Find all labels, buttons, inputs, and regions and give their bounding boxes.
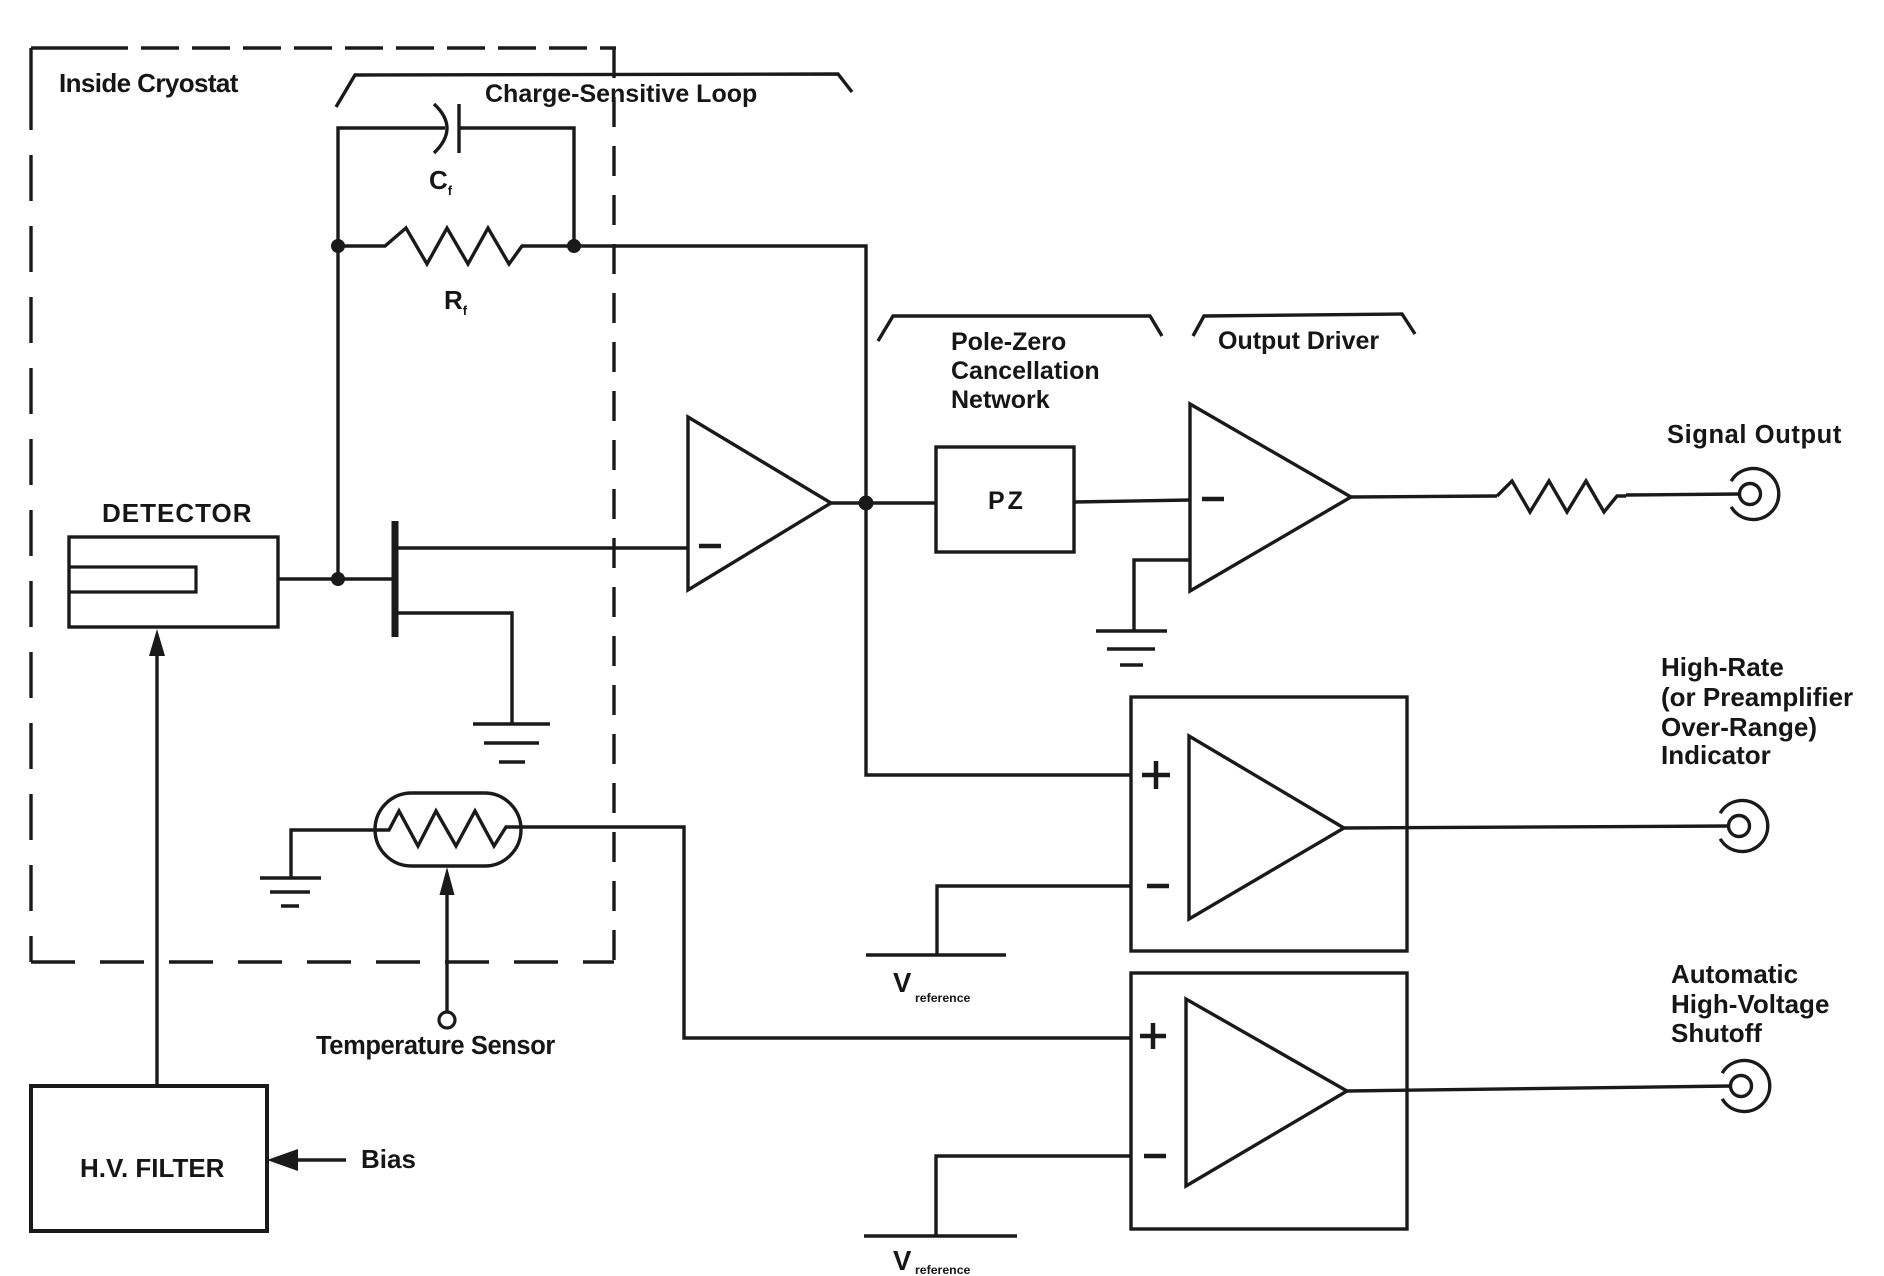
ground below Q1 source: [473, 724, 550, 762]
svg-text:reference: reference: [915, 1263, 971, 1276]
svg-text:Network: Network: [951, 386, 1050, 414]
comparator U4 high-voltage shutoff box: [1131, 973, 1407, 1229]
svg-text:Bias: Bias: [361, 1144, 416, 1174]
arrowhead into thermistor: [440, 867, 455, 895]
svg-text:Automatic: Automatic: [1671, 959, 1798, 989]
op-amp U2 output driver: [1190, 404, 1351, 591]
wire temperature sense terminal: [445, 888, 448, 1012]
resistor output series: [1497, 481, 1626, 512]
U1 inverting input minus: [699, 544, 721, 549]
wire U4 minus to Vreference: [936, 1156, 1131, 1235]
terminal circle temperature sensor: [439, 1012, 455, 1028]
arrowhead into detector: [149, 629, 165, 656]
detector inner electrode: [69, 567, 196, 592]
ground below U2: [1096, 631, 1167, 665]
wire U3 minus to Vreference: [937, 886, 1131, 954]
wire thermistor right lead to U4 plus input: [521, 827, 1131, 1038]
U3 plus input: [1142, 761, 1170, 789]
op-amp U4 triangle: [1186, 999, 1347, 1186]
brace Pole-Zero: [878, 316, 1162, 341]
wire bias input: [296, 1158, 346, 1161]
svg-text:Cancellation: Cancellation: [951, 357, 1100, 385]
thermistor RT1 element: [378, 811, 521, 846]
ground at thermistor: [260, 878, 321, 906]
svg-text:Output Driver: Output Driver: [1218, 327, 1379, 355]
cryostat dashed enclosure: [31, 48, 616, 962]
brace Charge-Sensitive Loop: [336, 74, 852, 107]
brace Output Driver: [1193, 314, 1415, 336]
wire U2 output to series resistor: [1351, 496, 1497, 497]
node junction right of Rf: [567, 239, 581, 253]
svg-text:PZ: PZ: [988, 487, 1026, 515]
U3 minus input: [1147, 884, 1169, 889]
op-amp U3 triangle: [1189, 736, 1344, 919]
wire PZ to output driver: [1074, 500, 1190, 502]
svg-text:High-Rate: High-Rate: [1661, 652, 1784, 682]
svg-text:Indicator: Indicator: [1661, 740, 1771, 770]
comparator U3 high-rate indicator box: [1131, 697, 1407, 951]
svg-text:Charge-Sensitive Loop: Charge-Sensitive Loop: [485, 80, 757, 108]
thermistor RT1 temperature sensor body: [375, 793, 521, 866]
connector J1 signal output: [1740, 484, 1761, 505]
PZ network box: [936, 447, 1074, 552]
op-amp U1 charge-sensitive amplifier: [688, 417, 831, 590]
resistor Rf: [338, 228, 575, 264]
svg-text:DETECTOR: DETECTOR: [102, 498, 253, 528]
wire thermistor left lead: [291, 830, 378, 878]
svg-text:V: V: [893, 1245, 912, 1276]
connector J3 shutoff: [1731, 1076, 1752, 1097]
node gate junction: [331, 572, 345, 586]
transistor Q1 input FET gate bar: [392, 521, 399, 637]
wire Q1 drain to amplifier input: [398, 546, 688, 549]
svg-text:(or Preamplifier: (or Preamplifier: [1661, 682, 1853, 712]
wire capacitor to right vertical: [459, 128, 574, 246]
wire U4 output to connector: [1347, 1086, 1731, 1091]
H.V. filter box: [31, 1086, 267, 1231]
wire Q1 source to ground: [398, 613, 512, 724]
svg-text:Signal Output: Signal Output: [1667, 421, 1842, 449]
wire feedback-loop left vertical: [338, 128, 445, 579]
wire resistor to output connector: [1626, 494, 1740, 495]
svg-text:Over-Range): Over-Range): [1661, 712, 1817, 742]
node U1 output junction: [859, 496, 874, 511]
svg-text:High-Voltage: High-Voltage: [1671, 989, 1829, 1019]
svg-text:reference: reference: [915, 991, 971, 1005]
svg-text:Inside Cryostat: Inside Cryostat: [59, 68, 239, 98]
wire H.V. filter to detector bias: [155, 652, 158, 1086]
capacitor Cf: [434, 104, 447, 153]
svg-text:Pole-Zero: Pole-Zero: [951, 328, 1066, 356]
svg-text:Shutoff: Shutoff: [1671, 1018, 1762, 1048]
connector J2 high-rate: [1729, 816, 1750, 837]
svg-text:V: V: [893, 967, 912, 998]
U4 minus input: [1144, 1154, 1166, 1159]
wire detector to gate node: [278, 577, 392, 580]
wire feedback top run to vertical drop: [575, 246, 1131, 775]
wire U3 output to connector: [1344, 826, 1729, 828]
arrowhead bias into H.V. filter: [267, 1149, 298, 1171]
node junction left of Rf: [331, 239, 345, 253]
wire U2 lower input to ground: [1134, 560, 1190, 631]
U2 inverting input minus: [1202, 497, 1224, 502]
svg-text:Temperature Sensor: Temperature Sensor: [316, 1032, 555, 1060]
svg-text:H.V. FILTER: H.V. FILTER: [80, 1153, 225, 1183]
Vreference rail 1: [866, 953, 1006, 957]
detector box: [69, 537, 278, 627]
wire U1 output to PZ: [831, 501, 936, 504]
U4 plus input: [1140, 1023, 1166, 1049]
Vreference rail 2: [864, 1234, 1017, 1238]
